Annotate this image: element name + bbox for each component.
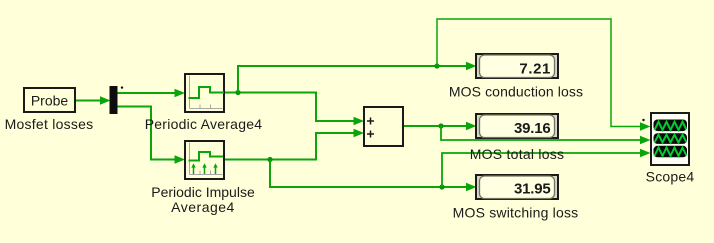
- svg-text:Scope4: Scope4: [646, 169, 695, 185]
- svg-text:Periodic Impulse: Periodic Impulse: [151, 184, 255, 200]
- svg-text:Periodic Average4: Periodic Average4: [145, 116, 263, 132]
- svg-text:Mosfet losses: Mosfet losses: [5, 116, 94, 132]
- wire W2 demux out1 to Periodic Average4: [117, 89, 185, 97]
- junction J1 on PA4 output: [235, 90, 240, 95]
- junction J5 on total wire: [438, 123, 443, 128]
- wire W3 demux out2 to Periodic Impulse Average4: [117, 107, 185, 164]
- wire W4 PA4 out to Sum in1: [225, 93, 364, 126]
- block Periodic Average4: [185, 74, 224, 112]
- wire W1 Probe to Demux: [76, 96, 111, 104]
- display D3 31.95: [476, 175, 558, 199]
- junction J4 on switching wire: [439, 184, 444, 189]
- wire W5b top rail to Scope in1: [437, 19, 651, 131]
- svg-text:MOS switching loss: MOS switching loss: [453, 205, 579, 221]
- label Periodic Impulse Average4: [151, 184, 255, 215]
- block Probe: [24, 88, 75, 112]
- wire W9b branch to Scope in2: [441, 126, 651, 144]
- svg-text:39.16: 39.16: [514, 120, 551, 137]
- display D1 7.21: [476, 54, 558, 78]
- block Periodic Impulse Average4: [185, 141, 224, 179]
- junction J2 on conduction wire: [434, 63, 439, 68]
- demux bar: [110, 86, 118, 114]
- dot near demux: [121, 86, 123, 88]
- op sum block U1: [364, 107, 403, 146]
- svg-text:MOS conduction loss: MOS conduction loss: [449, 84, 583, 100]
- svg-text:MOS total loss: MOS total loss: [470, 146, 565, 162]
- block Scope4: [651, 113, 689, 165]
- svg-text:Average4: Average4: [171, 199, 235, 215]
- svg-text:31.95: 31.95: [514, 181, 551, 198]
- svg-text:7.21: 7.21: [519, 61, 551, 78]
- svg-text:Probe: Probe: [31, 93, 69, 109]
- wire W6 PIA4 out to Sum in2: [225, 129, 364, 160]
- wire W8 branch to Scope in3: [442, 149, 651, 187]
- dot near scope: [642, 119, 644, 121]
- wire W9 Sum out to display 39.16: [404, 122, 477, 130]
- wire W5 branch to display 7.21: [238, 62, 477, 93]
- display D2 39.16: [476, 114, 558, 138]
- wire W7 branch to display 31.95: [270, 160, 477, 192]
- junction J3 on PIA4 output: [267, 157, 272, 162]
